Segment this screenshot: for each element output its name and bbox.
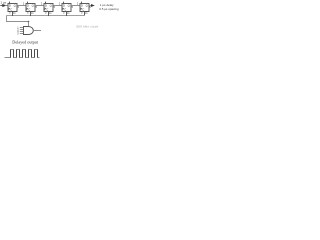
svg-text:Q: Q	[32, 4, 35, 8]
junction dot	[28, 21, 30, 23]
svg-text:1 μs: 1 μs	[0, 0, 6, 4]
clock wedge U4	[62, 8, 64, 10]
svg-text:5: 5	[72, 6, 74, 9]
wire U4.Q to U5.D	[71, 5, 80, 7]
clock wedge U2	[26, 8, 28, 10]
svg-text:5: 5	[36, 6, 38, 9]
svg-text:D: D	[81, 4, 83, 8]
clock waveform	[5, 50, 40, 58]
gate input stubs	[20, 27, 24, 29]
preset pin tick U4	[63, 2, 65, 4]
svg-text:0.5 μs spacing: 0.5 μs spacing	[99, 7, 119, 11]
preset pin tick U2	[27, 2, 29, 4]
flip-flop U5	[80, 4, 89, 15]
wire input to U1	[6, 5, 8, 7]
svg-text:D: D	[63, 4, 65, 8]
svg-text:5: 5	[17, 32, 19, 35]
clock stub U5	[84, 12, 86, 16]
output arrow	[91, 4, 95, 7]
wire U3.Q to U4.D	[53, 5, 62, 7]
clock wedge U3	[44, 8, 46, 10]
svg-text:5: 5	[54, 6, 56, 9]
wire U1.Q to U2.D	[17, 5, 26, 7]
wire U5.Q to output arrow	[89, 5, 91, 7]
clock stub U1	[12, 12, 14, 16]
note text top-right	[99, 3, 119, 11]
svg-text:Q: Q	[14, 4, 17, 8]
svg-text:Q: Q	[86, 4, 89, 8]
clock wedge U1	[8, 8, 10, 10]
wire U2.Q to U3.D	[35, 5, 44, 7]
svg-text:Q: Q	[68, 4, 71, 8]
svg-text:11: 11	[31, 10, 34, 14]
svg-text:Delayed output: Delayed output	[12, 40, 39, 45]
clock stub U3	[48, 12, 50, 16]
preset pin tick U5	[81, 2, 83, 4]
note text mid-right	[76, 24, 98, 28]
flip-flop U4	[62, 4, 71, 15]
clock bus	[7, 15, 86, 17]
clock waveform edges	[11, 50, 38, 58]
svg-text:11: 11	[67, 10, 70, 14]
gate input pin labels	[17, 26, 19, 35]
svg-text:D: D	[9, 4, 11, 8]
input arrow	[0, 5, 2, 7]
flip-flop U2	[26, 4, 35, 15]
clock stub U4	[66, 12, 68, 16]
svg-text:11: 11	[13, 10, 16, 14]
svg-text:Q: Q	[50, 4, 53, 8]
clock wedge U5	[80, 8, 82, 10]
flip-flop U1	[8, 4, 17, 15]
AND gate U6	[24, 27, 34, 35]
clock feed wire	[7, 16, 29, 27]
preset pin tick U3	[45, 2, 47, 4]
clock stub U2	[30, 12, 32, 16]
svg-text:500 kHz clock: 500 kHz clock	[76, 24, 98, 28]
svg-text:D: D	[45, 4, 47, 8]
svg-text:11: 11	[49, 10, 52, 14]
svg-text:D: D	[27, 4, 29, 8]
svg-text:5: 5	[18, 6, 20, 9]
input label	[0, 0, 6, 4]
gate output wire	[33, 30, 41, 32]
svg-text:11: 11	[85, 10, 88, 14]
label: Delayed output	[12, 40, 39, 45]
bus junction dots	[12, 15, 67, 16]
flip-flop U3	[44, 4, 53, 15]
preset pin tick U1	[9, 2, 11, 4]
